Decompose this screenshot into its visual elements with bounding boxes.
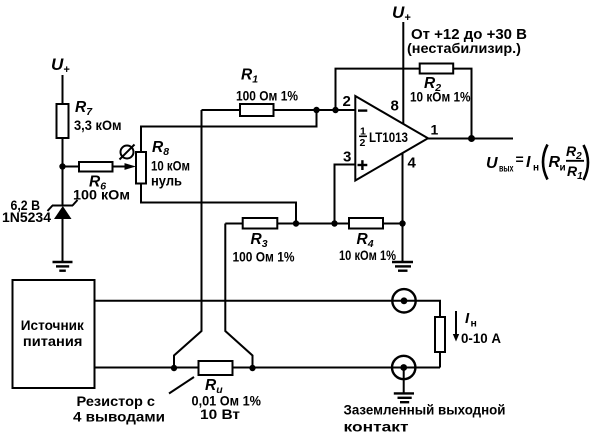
node R3 R8 junction [293,220,299,226]
wire U+ to R7 [62,75,64,105]
label zener 1N5234 [2,210,52,225]
resistor R6 [63,162,128,172]
label R3 [251,231,268,250]
wire sense lead right R3 to shunt [225,224,252,369]
wiper arrow into R8 [125,163,137,170]
zener diode 1N5234 [48,200,78,219]
svg-text:питания: питания [23,333,82,349]
shunt resistor Rи [199,361,233,375]
svg-text:10 кОм 1%: 10 кОм 1% [410,89,471,105]
svg-text:100 Ом 1%: 100 Ом 1% [233,249,295,265]
svg-text:н: н [471,318,477,330]
ground output terminal [394,393,414,402]
wire U+ to pin 8 [402,22,404,124]
svg-text:U: U [486,155,498,172]
svg-text:контакт: контакт [344,419,409,435]
wire pin 4 [402,152,404,224]
wire R3 node to R4 [296,223,349,225]
label 4 выводами [73,409,165,425]
svg-text:3: 3 [343,149,351,166]
label shunt power 10 Вт [200,406,240,422]
wire R7 to zener [62,138,64,206]
wire zener to ground [62,219,64,261]
svg-text:8: 8 [391,98,399,115]
label R6 value 100 кОм [73,187,130,203]
node output junction [468,135,475,142]
resistor R2 [420,64,454,74]
label output formula [486,143,588,182]
label R7 value 3,3 кОм [74,117,122,133]
terminal top [392,289,415,312]
svg-text:н: н [533,163,539,174]
resistor R4 [349,218,383,229]
svg-text:10 Вт: 10 Вт [200,406,240,422]
pin 8 [391,98,399,115]
ground op-amp [392,262,413,271]
label R4 [357,231,374,250]
node junction R7 R6 zener [59,163,65,169]
wire node to ground [402,224,404,262]
wire R8 bottom to R3 node [141,184,296,224]
power source box [13,280,95,388]
label one half [359,126,367,150]
label R3 value 100 Ом 1% [233,249,295,265]
node shunt left [171,365,177,371]
label shunt value 0,01 Ом 1% [192,393,262,409]
output wire [428,138,513,140]
svg-text:(нестабилизир.): (нестабилизир.) [407,40,521,56]
node shunt right [249,365,255,371]
label R6 [89,174,106,193]
power rail U+ left label [51,55,70,76]
svg-text:10 кОм: 10 кОм [151,159,190,174]
label R2 value 10 кОм 1% [410,89,471,105]
power rail U+ right label [392,3,411,24]
svg-text:2: 2 [343,93,351,110]
label R8 value 10 кОм [151,159,190,174]
svg-text:0-10 А: 0-10 А [461,330,501,346]
node inverting input junction [332,107,338,113]
svg-text:Источник: Источник [21,317,85,333]
node R4 pin4 ground junction [399,220,405,226]
svg-text:I: I [526,154,531,171]
load current arrow [453,311,459,342]
svg-text:10 кОм 1%: 10 кОм 1% [339,247,396,263]
label zener 6,2 В [11,198,41,213]
pin 1 [431,122,439,138]
wire R8 top to inverting node [141,110,317,152]
svg-text:Заземленный выходной: Заземленный выходной [344,402,506,418]
label контакт [344,419,409,435]
label Rи [205,377,223,396]
label R8 [152,139,169,158]
node noninverting junction [331,220,337,226]
label питания [23,333,82,349]
load resistor [435,317,445,352]
label Источник [21,317,85,333]
svg-text:LT1013: LT1013 [369,130,408,145]
op-amp minus sign [358,109,367,111]
resistor R3 [225,218,296,229]
label LT1013 [369,130,408,145]
feedback wire pin2 to R2 to output [336,69,472,139]
svg-text:100 кОм: 100 кОм [73,187,130,203]
label supply note line 1 [411,27,527,43]
trimmer screw symbol [120,145,135,160]
potentiometer R8 [136,152,146,184]
terminal bottom [392,356,415,379]
svg-text:и: и [560,163,566,174]
svg-text:нуль: нуль [151,174,182,189]
svg-text:4: 4 [408,155,417,172]
callout line [169,377,194,394]
op-amp plus sign [358,160,368,170]
svg-text:2: 2 [360,137,366,149]
label R2 [424,75,441,94]
svg-text:3,3 кОм: 3,3 кОм [74,117,122,133]
svg-text:100 Ом 1%: 100 Ом 1% [236,88,298,104]
wire box top to load [95,301,441,317]
pin 3 [343,149,351,166]
pin 2 [343,93,351,110]
wire sense lead left R1 to shunt [174,110,202,368]
svg-text:=: = [516,151,524,167]
op-amp U1 half LT1013 [355,96,428,181]
svg-text:Резистор с: Резистор с [77,393,156,409]
label 0-10 А [461,330,501,346]
wire box bottom through shunt [95,367,441,369]
svg-text:4 выводами: 4 выводами [73,409,165,425]
pin 4 [408,155,417,172]
ground zener [53,262,73,271]
svg-text:1N5234: 1N5234 [2,210,52,225]
wire terminal to ground [403,368,405,393]
label supply note line 2 [407,40,521,56]
label R1 [241,67,258,86]
label R7 [75,99,93,118]
resistor R1 [202,104,356,116]
label Резистор с [77,393,156,409]
node R1 right junction [313,107,319,113]
wire to pin 3 [335,165,356,224]
label Заземленный выходной [344,402,506,418]
label Iн [465,310,477,330]
resistor R7 [57,104,69,138]
svg-text:1: 1 [431,122,439,138]
wire R4 to ground node [383,223,403,225]
wire load bottom [439,352,441,368]
svg-text:вых: вых [499,164,514,175]
label R4 value 10 кОм 1% [339,247,396,263]
label R1 value 100 Ом 1% [236,88,298,104]
label нуль [151,174,182,189]
